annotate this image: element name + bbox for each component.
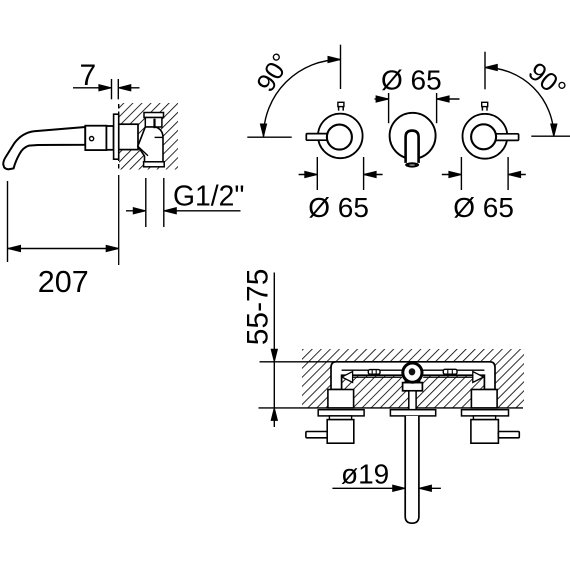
right valve in-wall body [471, 390, 497, 408]
left 90deg: horizontal reference line [247, 136, 291, 138]
right escutcheon plate [462, 410, 509, 416]
left handle dim: extension lines [316, 157, 318, 190]
finished wall line (bottom reference) [259, 407, 524, 409]
right handle: hidden stem dashes [481, 107, 483, 124]
spout boss ring [401, 362, 423, 384]
left handle: lever [306, 134, 333, 141]
dimension diam 19: line left + arrow [332, 487, 405, 489]
right 90deg: rotation arc [485, 68, 554, 137]
dimension 55-75: dimension line [273, 273, 275, 428]
dimension 207: arrow left [8, 245, 21, 251]
right handle dim: extension lines [460, 157, 462, 190]
dimension 55-75: arrow down [271, 349, 277, 362]
left 90deg: arrow at horizontal line [260, 124, 266, 137]
left handle dim: line + arrows [299, 174, 318, 176]
spout boss shadow [405, 377, 421, 383]
spout body ring [106, 126, 113, 150]
svg-text:ø19: ø19 [341, 458, 389, 489]
right valve body [471, 420, 499, 444]
right valve lever [498, 432, 519, 438]
dimension 7: line left part [73, 87, 111, 89]
wall face dashed line [118, 104, 120, 170]
dimension 207: arrow right [106, 245, 119, 251]
dimension 7: tick 2 [117, 79, 119, 99]
left escutcheon plate [318, 410, 364, 416]
spout tube [3, 127, 85, 169]
wall hatch (side view) [119, 103, 178, 170]
left valve lever [306, 432, 327, 438]
wall hatch band (section) [302, 349, 524, 408]
right handle: outer circle [463, 114, 508, 159]
right 90deg: horizontal reference line [531, 135, 570, 137]
left 90deg: rotation arc [264, 60, 341, 137]
left valve stem ring [329, 416, 351, 420]
svg-text:207: 207 [38, 265, 89, 299]
valve bottom cap [144, 162, 165, 167]
svg-text:Ø 65: Ø 65 [381, 64, 442, 95]
middle spout: outlet ellipse [405, 162, 419, 167]
spout tail pipe [405, 416, 419, 523]
right handle: lever [493, 134, 519, 141]
middle spout: tube with dome top [406, 131, 419, 163]
valve diagonal internal edge [138, 146, 148, 156]
left handle: top stub bracket [338, 102, 344, 106]
left handle: inner circle [327, 125, 352, 150]
middle spout: outer circle [390, 113, 436, 159]
left valve in-wall body [328, 390, 354, 408]
spout stub pipe in wall [409, 391, 416, 410]
right 90deg: vertical reference line [484, 52, 486, 90]
right handle: inner circle [471, 124, 496, 149]
dimension G1/2: extension line right [163, 178, 165, 227]
dimension G1/2: line left part with arrow [126, 210, 146, 212]
center escutcheon plate [390, 410, 435, 416]
svg-text:90°: 90° [250, 48, 296, 97]
manifold rail with end elbows [331, 362, 495, 390]
dimension 207: extension line left [7, 181, 9, 262]
dimension 55-75: arrow up [271, 408, 277, 421]
spout union nut [403, 383, 423, 391]
rail inner line [342, 369, 485, 371]
dimension 7: line right part [118, 87, 139, 89]
dimension G1/2: line right part with arrow [164, 210, 241, 212]
dimension diam 19: line right + arrow [419, 487, 441, 489]
spout boss center hole [409, 368, 416, 375]
rail pointed end left [342, 372, 353, 383]
mounting depth line (top reference) [260, 361, 491, 363]
concealed valve upper housing [145, 118, 162, 128]
middle spout dim: line + arrows [375, 98, 389, 100]
dimension 7: arrow left-pointing [118, 85, 131, 91]
spout body cylinder [85, 126, 106, 150]
left handle: hidden stem dashes [338, 107, 340, 124]
in-wall body behind flange [119, 124, 138, 149]
left 90deg: vertical reference line [340, 45, 342, 89]
svg-text:G1/2": G1/2" [173, 179, 244, 211]
valve stem pin [153, 119, 155, 129]
left valve body [327, 420, 354, 444]
dimension G1/2: extension line left [145, 178, 147, 227]
svg-text:90°: 90° [523, 56, 570, 104]
right 90deg: arrow at vertical line [485, 64, 498, 70]
svg-text:7: 7 [80, 59, 97, 92]
dimension 207: dimension line [8, 248, 119, 250]
rail pointed end right [473, 372, 484, 383]
svg-text:Ø 65: Ø 65 [453, 192, 514, 223]
right 90deg: arrow at horizontal line [551, 124, 557, 137]
svg-text:55-75: 55-75 [241, 269, 274, 346]
middle spout dim: extension lines [388, 93, 390, 123]
spout body set screw [90, 137, 94, 141]
right handle dim: line + arrows [442, 174, 462, 176]
concealed valve cap [144, 113, 164, 118]
left 90deg: arrow at vertical line [328, 56, 341, 62]
left handle: outer circle [318, 114, 363, 159]
dimension 7: arrow right-pointing [99, 85, 112, 91]
svg-text:Ø 65: Ø 65 [308, 192, 369, 223]
rail front edge right segment [423, 376, 473, 378]
wall flange [114, 114, 119, 159]
concealed valve body polygon [138, 127, 163, 162]
valve neck internal edge [155, 136, 163, 138]
fixing clip right [443, 369, 457, 374]
fixing clip left [368, 370, 380, 375]
dimension 7: tick 1 [111, 79, 113, 99]
right handle: top stub bracket [482, 102, 488, 106]
right valve stem ring [473, 416, 495, 420]
rail front edge left segment [353, 376, 402, 378]
wall face line extension (207 right extension) [118, 175, 120, 265]
